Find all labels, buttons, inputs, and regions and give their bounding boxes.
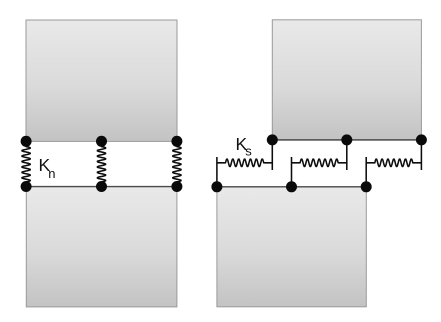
svg-text:n: n <box>48 166 55 181</box>
svg-text:s: s <box>245 144 252 159</box>
